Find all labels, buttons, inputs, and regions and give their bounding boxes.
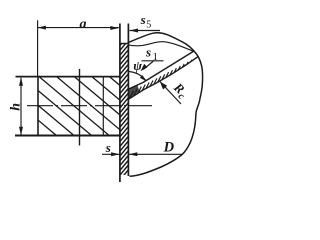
vertical line inside ring at x=79.5 <box>79 69 81 146</box>
dim a: left extension line <box>37 20 39 76</box>
dim h: top arrow <box>19 77 23 86</box>
dim Rc: leader line with arrow to knuckle <box>160 82 181 104</box>
dim a: left arrow <box>37 26 46 30</box>
ring block hatching (reinforcing ring cross-section) <box>0 77 180 136</box>
angle psi arc with arrow <box>129 72 146 81</box>
svg-text:s: s <box>140 12 146 27</box>
dim a: right arrow <box>110 26 119 30</box>
svg-text:5: 5 <box>146 20 151 31</box>
shell wall left line (also extension for dims a and s) <box>119 24 121 183</box>
dim s1: bar under label <box>142 60 164 62</box>
vertical line inside ring at x=103.3 <box>102 77 104 135</box>
svg-text:h: h <box>8 103 23 111</box>
svg-text:D: D <box>163 140 175 156</box>
dim s: tail line left of shell <box>102 153 120 155</box>
dim s1: leader arrow to cone wall <box>143 61 153 70</box>
horizontal dash-dot centre line through ring <box>27 105 152 107</box>
svg-text:s: s <box>145 45 151 60</box>
cone wall upper edge <box>129 51 194 89</box>
dim h: bottom arrow <box>19 127 23 136</box>
dim h: dimension line <box>20 78 22 135</box>
ring block bottom edge (also h bottom extension line) <box>15 135 120 137</box>
weld junction dark zone where cone meets shell <box>129 85 140 100</box>
inner edge line from shell top toward break <box>128 42 194 52</box>
dim D: left-pointing arrow with tail to the right <box>129 153 183 155</box>
shell wall right line (also extension for dims s5 and D) <box>127 24 129 177</box>
cone wall lower edge <box>129 57 198 99</box>
svg-text:s: s <box>105 140 111 155</box>
ring block left edge <box>37 76 39 137</box>
freehand break line bounding the shown portion <box>128 33 203 176</box>
label Rc (rotated) <box>168 79 191 102</box>
svg-text:a: a <box>80 17 87 32</box>
dim s5: left-pointing arrow with tail <box>130 30 161 32</box>
shell wall hatching (vertical strip) <box>117 32 131 183</box>
cone wall hatching <box>127 52 208 105</box>
dim s: right-pointing arrow <box>111 152 120 156</box>
ring block top edge (also h top extension line) <box>16 76 120 78</box>
shell top end cap <box>119 43 129 45</box>
dim a: dimension line <box>37 27 118 29</box>
